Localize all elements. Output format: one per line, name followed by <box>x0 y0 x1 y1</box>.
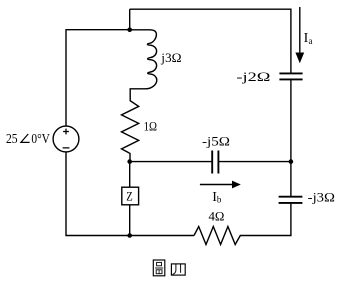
svg-text:25: 25 <box>6 132 18 147</box>
svg-text:b: b <box>217 195 222 205</box>
svg-text:j3Ω: j3Ω <box>160 51 181 65</box>
svg-text:4Ω: 4Ω <box>209 210 225 224</box>
svg-text:-j2Ω: -j2Ω <box>236 70 270 84</box>
svg-text:a: a <box>309 36 313 46</box>
svg-text:-j3Ω: -j3Ω <box>308 191 335 205</box>
svg-text:1Ω: 1Ω <box>144 119 157 133</box>
svg-text:0°V: 0°V <box>31 132 50 147</box>
svg-text:-j5Ω: -j5Ω <box>202 135 230 149</box>
svg-text:Z: Z <box>126 189 133 204</box>
